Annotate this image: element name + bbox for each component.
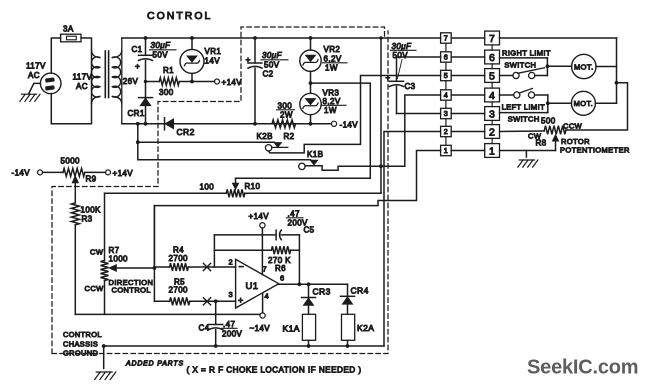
svg-text:2700: 2700 [169,254,189,263]
svg-text:+: + [135,61,140,71]
svg-text:CONTROL: CONTROL [147,10,212,22]
svg-text:5: 5 [489,70,495,82]
svg-text:1: 1 [444,146,448,155]
svg-text:VR2: VR2 [324,45,341,54]
svg-text:+14V: +14V [222,78,243,87]
svg-text:6,2V: 6,2V [324,55,342,64]
svg-text:3A: 3A [63,25,74,34]
svg-text:4: 4 [444,91,448,100]
svg-text:R2: R2 [284,132,295,141]
svg-text:K1A: K1A [283,324,300,334]
svg-text:30μF: 30μF [151,41,171,50]
svg-text:+14V: +14V [113,169,134,178]
svg-text:U1: U1 [246,281,259,292]
svg-text:R6: R6 [275,264,286,273]
svg-text:+14V: +14V [249,212,270,221]
svg-text:3: 3 [229,290,234,299]
svg-text:CONTROL: CONTROL [112,286,151,295]
svg-text:~14V: ~14V [250,324,271,333]
svg-text:GROUND: GROUND [63,348,98,357]
svg-text:300: 300 [159,88,174,97]
svg-text:30μF: 30μF [392,42,412,51]
svg-text:K2B: K2B [257,132,273,141]
svg-text:2: 2 [229,258,234,267]
svg-text:200V: 200V [222,330,243,339]
svg-text:R8: R8 [536,139,547,148]
svg-text:R9: R9 [86,175,97,184]
svg-text:2W: 2W [280,111,293,120]
svg-text:CHASSIS: CHASSIS [63,339,98,348]
svg-text:MOT.: MOT. [574,62,594,71]
svg-text:CW: CW [90,248,104,257]
svg-text:−: − [239,262,245,272]
svg-text:C2: C2 [263,70,274,79]
svg-text:50V: 50V [153,51,169,60]
svg-text:14V: 14V [205,57,221,66]
svg-text:+: + [238,296,244,306]
svg-text:MOT.: MOT. [574,99,594,108]
svg-text:R10: R10 [245,182,261,191]
svg-text:2: 2 [489,126,495,138]
svg-text:6: 6 [280,274,285,283]
svg-text:C3: C3 [405,82,416,91]
svg-text:4: 4 [265,292,270,301]
svg-text:30μF: 30μF [262,51,282,60]
svg-text:SWITCH: SWITCH [508,114,540,123]
svg-text:1000: 1000 [109,255,129,264]
svg-text:C1: C1 [132,45,143,54]
svg-text:4: 4 [489,90,495,102]
svg-text:100K: 100K [81,206,102,215]
svg-text:3: 3 [444,109,448,118]
svg-text:1W: 1W [324,106,337,115]
svg-text:SeekIC.com: SeekIC.com [527,357,638,379]
svg-text:50V: 50V [264,61,280,70]
svg-text:CCW: CCW [563,122,583,131]
svg-text:K1B: K1B [307,150,323,159]
svg-text:AC: AC [28,71,40,80]
svg-text:1: 1 [489,145,495,157]
svg-text:CR4: CR4 [351,286,369,296]
svg-text:3: 3 [489,108,495,120]
svg-text:ADDED PARTS: ADDED PARTS [125,361,184,368]
svg-text:50V: 50V [393,51,409,60]
svg-text:5: 5 [444,71,448,80]
svg-text:POTENTIOMETER: POTENTIOMETER [560,145,630,154]
svg-text:7: 7 [444,34,448,43]
svg-text:SWITCH: SWITCH [504,61,536,70]
svg-text:7: 7 [489,33,495,45]
svg-text:300: 300 [278,102,293,111]
svg-text:RIGHT LIMIT: RIGHT LIMIT [502,48,551,57]
svg-text:( X = R F CHOKE LOCATION IF: ( X = R F CHOKE LOCATION IF NEEDED ) [187,366,362,375]
svg-text:CR3: CR3 [313,287,331,297]
svg-text:100: 100 [200,183,215,192]
svg-text:1W: 1W [325,64,338,73]
svg-text:C5: C5 [304,226,315,235]
svg-text:R3: R3 [82,215,93,224]
svg-text:5000: 5000 [61,157,81,166]
svg-text:8,2V: 8,2V [323,97,341,106]
svg-text:VR1: VR1 [205,47,222,56]
svg-text:.47: .47 [288,210,300,219]
svg-text:CR1: CR1 [128,109,145,118]
svg-text:CONTROL: CONTROL [63,330,102,339]
svg-text:CCW: CCW [85,284,105,293]
svg-text:26V: 26V [123,77,139,86]
svg-text:.47: .47 [223,320,235,329]
svg-text:CR2: CR2 [177,127,195,137]
svg-text:-14V: -14V [12,169,31,178]
svg-text:AC: AC [76,82,88,91]
svg-text:500: 500 [541,117,556,126]
svg-text:R1: R1 [163,66,174,75]
svg-text:+: + [246,55,251,65]
svg-text:6: 6 [444,53,448,62]
svg-text:LEFT LIMIT: LEFT LIMIT [502,102,545,111]
svg-text:2: 2 [444,127,448,136]
svg-text:2700: 2700 [169,286,189,295]
svg-text:7: 7 [263,265,268,274]
svg-text:C4: C4 [199,324,210,333]
svg-text:K2A: K2A [357,323,374,333]
svg-text:6: 6 [489,52,495,64]
svg-text:117V: 117V [26,62,46,71]
svg-text:117V: 117V [73,73,93,82]
svg-text:-14V: -14V [340,121,359,130]
